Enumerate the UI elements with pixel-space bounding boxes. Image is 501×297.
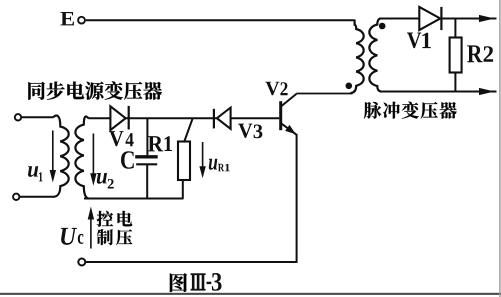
- label R2: [467, 45, 482, 62]
- arrow u2: [92, 134, 94, 177]
- label 制压: [97, 229, 113, 245]
- wire sync bottom terminal to primary: [20, 196, 54, 198]
- label pulse transformer 脉冲变压器: [364, 102, 381, 119]
- arrow uR1: [202, 142, 204, 172]
- transistor V2 base bar: [279, 101, 282, 130]
- label V4: [109, 131, 123, 146]
- sync transformer primary winding: [53, 116, 68, 197]
- wire pulse secondary top to output: [380, 18, 497, 20]
- right scan border line: [499, 0, 500, 297]
- diode V3: [213, 109, 215, 129]
- wire sync secondary top to V2 base: [88, 117, 279, 119]
- transistor V2 emitter: [281, 123, 297, 262]
- pulse transformer primary winding: [351, 20, 364, 94]
- wire pulse secondary bottom to output: [380, 91, 497, 93]
- label V2: [265, 82, 279, 96]
- output arrow top: [479, 15, 495, 22]
- caption hyphen: [207, 282, 212, 284]
- polarity dot pulse primary: [346, 83, 353, 90]
- sync transformer secondary winding: [75, 117, 88, 199]
- arrow u1: [52, 131, 54, 173]
- terminal Uc: [78, 259, 85, 266]
- wire bottom rail: [84, 198, 184, 200]
- wire pulse primary bottom to V2 collector: [296, 93, 352, 95]
- label Uc: [61, 228, 77, 245]
- caption 图: [170, 273, 187, 292]
- wire sync top terminal to primary: [21, 116, 53, 118]
- label sync transformer 同步电源变压器: [28, 82, 44, 100]
- diode V4: [110, 106, 125, 130]
- label uR1: [209, 159, 218, 170]
- resistor R2: [454, 19, 456, 39]
- label R1: [148, 136, 163, 151]
- diode V1: [419, 7, 440, 30]
- caption 3: [212, 273, 222, 291]
- wire emitter to control terminal: [86, 261, 298, 263]
- terminal sync bottom: [13, 194, 19, 200]
- label C: [121, 151, 134, 169]
- pulse transformer secondary winding: [369, 19, 380, 92]
- resistor R1: [184, 119, 192, 142]
- arrow Uc up: [90, 214, 92, 249]
- capacitor C: [146, 118, 148, 155]
- label V1: [407, 33, 421, 49]
- wire E to pulse transformer primary: [86, 19, 355, 21]
- label V3: [238, 124, 252, 138]
- label u1: [28, 166, 38, 177]
- caption roman III: [191, 273, 206, 275]
- terminal E: [78, 17, 85, 24]
- label u2: [97, 173, 107, 184]
- bottom scan border line: [0, 293, 501, 295]
- output arrow bottom: [479, 88, 495, 95]
- transistor V2 collector: [281, 94, 297, 107]
- polarity dot pulse secondary: [379, 23, 386, 30]
- label 控电: [97, 211, 113, 227]
- node E label: [60, 12, 73, 25]
- terminal sync top: [15, 114, 21, 120]
